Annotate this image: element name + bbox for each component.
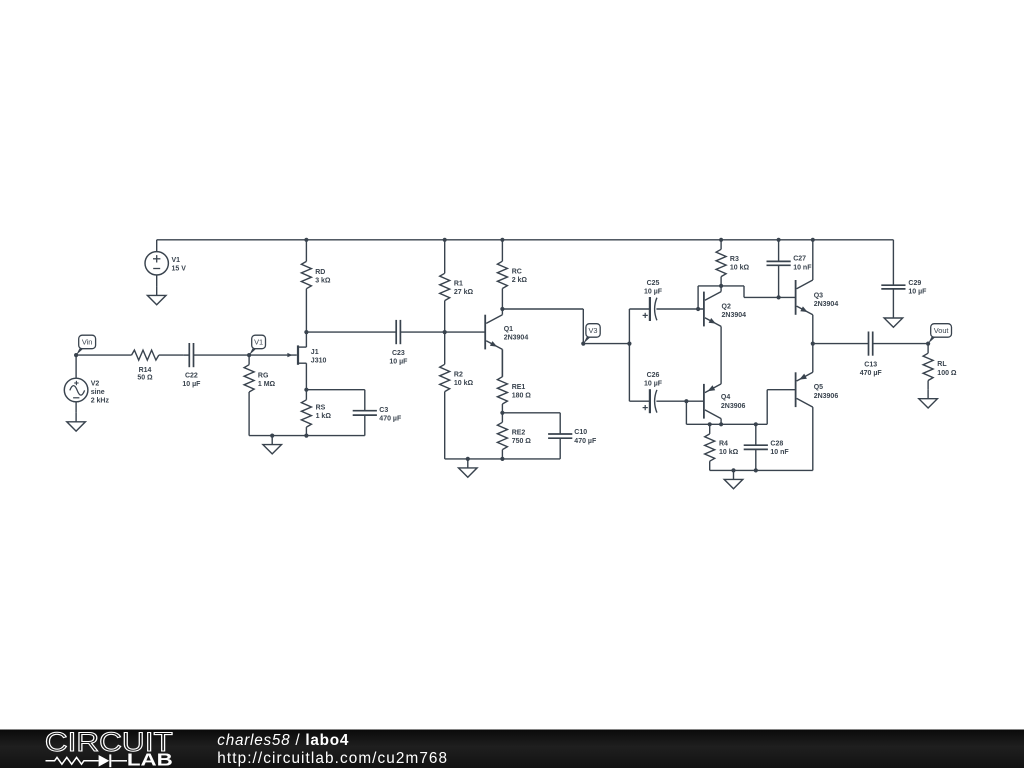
svg-text:RG: RG [258, 372, 269, 379]
svg-text:C25: C25 [647, 280, 660, 287]
svg-text:RS: RS [316, 404, 326, 411]
svg-text:2N3906: 2N3906 [721, 403, 746, 410]
svg-text:R4: R4 [719, 441, 728, 448]
svg-text:C29: C29 [908, 280, 921, 287]
svg-text:2 kHz: 2 kHz [91, 398, 110, 405]
svg-text:C23: C23 [392, 350, 405, 357]
svg-text:750 Ω: 750 Ω [512, 438, 532, 445]
svg-text:C22: C22 [185, 372, 198, 379]
svg-text:1 kΩ: 1 kΩ [316, 413, 332, 420]
svg-text:LAB: LAB [127, 751, 173, 768]
svg-text:RC: RC [512, 269, 522, 276]
svg-text:10 nF: 10 nF [770, 449, 789, 456]
svg-text:V3: V3 [588, 326, 597, 335]
svg-text:10 kΩ: 10 kΩ [719, 449, 739, 456]
svg-text:charles58 / labo4: charles58 / labo4 [217, 732, 349, 749]
svg-text:2N3906: 2N3906 [814, 393, 839, 400]
svg-text:R2: R2 [454, 372, 463, 379]
svg-text:R14: R14 [139, 367, 152, 374]
svg-text:Q5: Q5 [814, 384, 823, 391]
svg-text:C27: C27 [793, 255, 806, 262]
svg-text:sine: sine [91, 389, 105, 396]
svg-text:R1: R1 [454, 280, 463, 287]
svg-text:50 Ω: 50 Ω [137, 374, 153, 381]
svg-text:100 Ω: 100 Ω [937, 370, 957, 377]
svg-text:Vin: Vin [82, 338, 93, 347]
svg-text:2N3904: 2N3904 [504, 334, 529, 341]
svg-text:Vout: Vout [934, 326, 949, 335]
svg-text:C3: C3 [379, 407, 388, 414]
svg-text:J310: J310 [311, 358, 327, 365]
svg-text:C10: C10 [574, 429, 587, 436]
svg-text:27 kΩ: 27 kΩ [454, 289, 474, 296]
svg-text:Q2: Q2 [722, 304, 731, 311]
svg-text:RD: RD [315, 269, 325, 276]
svg-text:470 µF: 470 µF [574, 438, 597, 445]
svg-text:3 kΩ: 3 kΩ [315, 278, 331, 285]
svg-text:1 MΩ: 1 MΩ [258, 381, 276, 388]
svg-text:2N3904: 2N3904 [814, 301, 839, 308]
svg-text:470 µF: 470 µF [379, 416, 402, 423]
svg-text:V1: V1 [254, 338, 263, 347]
svg-text:RE2: RE2 [512, 430, 526, 437]
svg-text:10 kΩ: 10 kΩ [730, 265, 750, 272]
svg-text:C13: C13 [864, 362, 877, 369]
svg-text:RE1: RE1 [512, 384, 526, 391]
svg-text:180 Ω: 180 Ω [512, 393, 532, 400]
svg-text:V2: V2 [91, 381, 100, 388]
svg-text:C28: C28 [770, 440, 783, 447]
svg-text:10 µF: 10 µF [644, 288, 663, 295]
svg-text:Q3: Q3 [814, 293, 823, 300]
svg-text:C26: C26 [647, 372, 660, 379]
svg-text:Q4: Q4 [721, 394, 730, 401]
svg-text:10 µF: 10 µF [644, 380, 663, 387]
svg-text:RL: RL [937, 361, 947, 368]
svg-text:J1: J1 [311, 349, 319, 356]
svg-text:V1: V1 [172, 257, 181, 264]
svg-text:15 V: 15 V [172, 266, 187, 273]
svg-text:R3: R3 [730, 256, 739, 263]
svg-text:10 µF: 10 µF [908, 289, 927, 296]
svg-text:10 µF: 10 µF [182, 381, 201, 388]
svg-text:10 µF: 10 µF [389, 358, 408, 365]
svg-text:2N3904: 2N3904 [722, 312, 747, 319]
svg-text:470 µF: 470 µF [860, 370, 883, 377]
svg-text:2 kΩ: 2 kΩ [512, 277, 528, 284]
svg-text:10 nF: 10 nF [793, 264, 812, 271]
svg-text:Q1: Q1 [504, 326, 513, 333]
svg-text:10 kΩ: 10 kΩ [454, 380, 474, 387]
svg-text:http://circuitlab.com/cu2m768: http://circuitlab.com/cu2m768 [217, 750, 448, 767]
